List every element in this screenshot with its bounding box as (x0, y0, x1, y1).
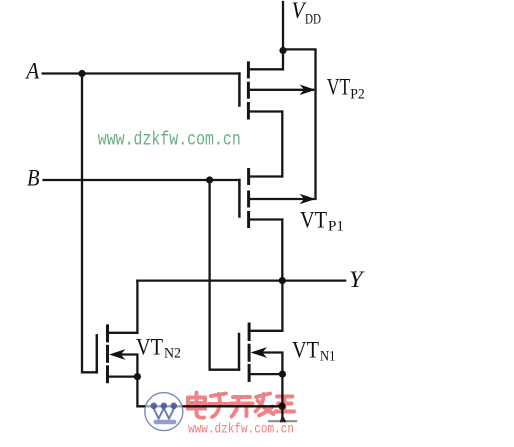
wire VT_N1 source to ground (281, 374, 283, 419)
node Y junction dot (279, 277, 286, 284)
wire VT_P1 source to output node (281, 220, 283, 281)
svg-text:www.dzkfw.com.cn: www.dzkfw.com.cn (188, 422, 294, 438)
svg-text:VT: VT (292, 338, 319, 363)
wire input A (43, 72, 240, 74)
wire B down to VT_N1 gate (210, 180, 239, 370)
wire VDD feed (282, 2, 284, 51)
ground (269, 417, 296, 422)
transistor VT_N1 (239, 324, 282, 380)
svg-text:P2: P2 (350, 87, 365, 103)
svg-text:Y: Y (349, 267, 365, 292)
svg-text:VT: VT (327, 75, 351, 100)
label VT_N2 (136, 335, 181, 362)
node VDD junction dot (279, 47, 286, 54)
wire A down to VT_N2 gate (82, 74, 97, 373)
label Y (349, 267, 365, 292)
svg-text:VT: VT (136, 335, 163, 360)
wire VDD to PMOS body rail (283, 49, 316, 199)
label A (24, 59, 40, 84)
label VT_N1 (292, 338, 336, 365)
svg-text:N1: N1 (320, 349, 336, 365)
svg-text:B: B (27, 166, 40, 191)
wire VT_P2 source to VT_P1 drain (281, 112, 283, 177)
wire output Y (137, 279, 345, 281)
transistor VT_P1 (239, 170, 315, 227)
svg-text:N2: N2 (164, 346, 181, 362)
label VDD (292, 0, 322, 28)
wire VT_N2 drain to Y (108, 281, 138, 333)
wire VT_N1 drain to Y (249, 281, 282, 331)
node VT_N2 source-body dot (134, 373, 141, 380)
wire VT_N2 source to ground rail (137, 377, 282, 407)
svg-text:P1: P1 (328, 219, 344, 235)
node VT_N1 source-body dot (279, 371, 286, 378)
label B (27, 166, 40, 191)
label VT_P1 (300, 208, 344, 235)
node ground junction dot (278, 403, 285, 410)
svg-text:A: A (24, 59, 40, 84)
svg-text:DD: DD (305, 12, 321, 28)
node B junction dot (206, 176, 213, 183)
wire input B (44, 179, 240, 181)
transistor VT_P2 (239, 50, 315, 118)
svg-text:www.dzkfw.com.cn: www.dzkfw.com.cn (98, 129, 241, 151)
transistor VT_N2 (97, 326, 138, 382)
svg-text:VT: VT (300, 208, 327, 233)
node A junction dot (78, 70, 85, 77)
label VT_P2 (327, 75, 365, 103)
